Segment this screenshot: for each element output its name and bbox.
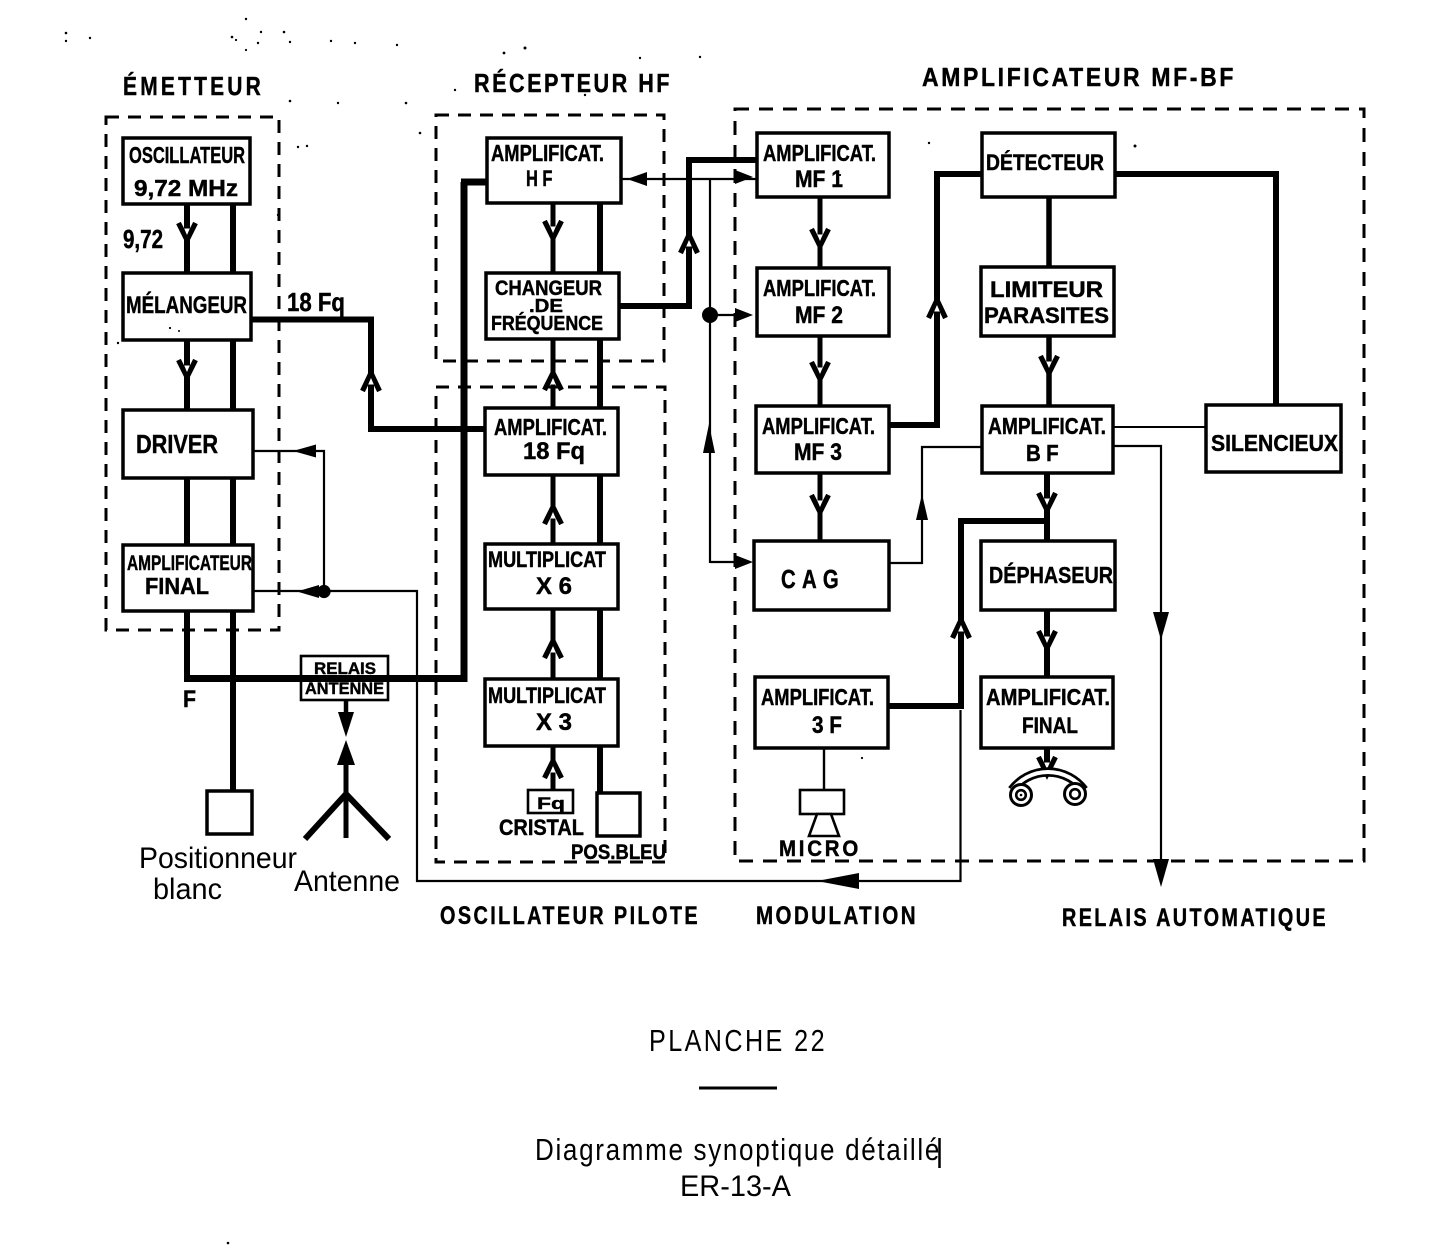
antenna mast	[344, 758, 349, 838]
thin wire BF to silencieux	[1113, 426, 1206, 428]
svg-text:DRIVER: DRIVER	[136, 429, 218, 459]
junction dot on AGC line	[702, 307, 718, 323]
svg-text:18 Fq: 18 Fq	[523, 438, 585, 465]
block AMPLIFICAT. MF3	[756, 406, 889, 473]
wire 18 Fq from amplificat 18Fq to melangeur	[371, 323, 485, 430]
arrow dephaseur to ampli final	[1039, 631, 1056, 648]
arrow into driver	[293, 445, 316, 458]
wire MF3 to detecteur	[889, 422, 937, 428]
wire emitter chain right parallel line down to positionneur	[230, 204, 236, 791]
svg-text:AMPLIFICAT.: AMPLIFICAT.	[494, 414, 607, 440]
arrow ampli final to phones	[1039, 757, 1056, 774]
wire receiver chain right parallel line x600 down to pos bleu	[597, 203, 603, 795]
svg-text:ER-13-A: ER-13-A	[680, 1170, 791, 1203]
arrow down from relais antenne	[338, 712, 354, 737]
arrow up on 3F wire	[953, 620, 970, 638]
svg-text:9,72 MHz: 9,72 MHz	[134, 175, 238, 201]
svg-text:BF: BF	[1026, 440, 1064, 466]
wire detecteur to silencieux	[1115, 174, 1276, 405]
caption underline	[699, 1087, 777, 1090]
headphones right earpiece	[1065, 784, 1086, 805]
svg-text:AMPLIFICATEUR MF-BF: AMPLIFICATEUR MF-BF	[922, 62, 1236, 92]
svg-text:MODULATION: MODULATION	[756, 902, 918, 930]
block MULTIPLICAT X6	[485, 544, 618, 609]
block DRIVER	[123, 410, 253, 478]
arrow up on changeur-MF1 wire	[681, 235, 698, 253]
block CAG	[754, 541, 889, 610]
svg-text:RELAIS: RELAIS	[314, 659, 376, 678]
arrow cristal up to X3	[545, 761, 562, 778]
arrow up on MF3-detecteur wire	[929, 300, 946, 318]
block DETECTEUR	[982, 133, 1115, 197]
svg-text:CRISTAL: CRISTAL	[499, 815, 584, 840]
arrow 18Fq up to changeur	[545, 373, 562, 390]
svg-text:MULTIPLICAT: MULTIPLICAT	[488, 683, 606, 708]
svg-text:AMPLIFICAT.: AMPLIFICAT.	[763, 140, 876, 166]
block AMPLIFICAT. BF	[982, 406, 1113, 473]
svg-text:AMPLIFICAT.: AMPLIFICAT.	[986, 684, 1110, 710]
svg-text:CAG: CAG	[781, 564, 845, 594]
block MULTIPLICAT X3	[485, 679, 618, 746]
svg-text:Fq: Fq	[537, 794, 565, 813]
arrow X3 up to X6	[545, 641, 562, 658]
arrow amplificat HF to changeur	[545, 221, 562, 238]
svg-text:Antenne: Antenne	[294, 865, 400, 898]
block AMPLIFICAT. 18Fq	[485, 408, 618, 475]
svg-text:RELAIS AUTOMATIQUE: RELAIS AUTOMATIQUE	[1062, 904, 1328, 932]
dashed frame AMPLIFICATEUR MF-BF section	[735, 109, 1364, 861]
arrow melangeur to driver	[179, 360, 196, 377]
dashed frame OSCILLATEUR PILOTE section	[436, 387, 665, 862]
dashed frame EMETTEUR section	[106, 117, 279, 630]
wire changeur de frequence to amplificat MF1	[619, 303, 689, 309]
svg-text:DÉPHASEUR: DÉPHASEUR	[989, 561, 1113, 588]
wire F output: ampli final down, along bottom, through relais antenne, up to amplificat HF	[184, 611, 190, 676]
block CHANGEUR DE FREQUENCE	[486, 273, 619, 339]
wire receiver chain arrowed line x553	[551, 203, 556, 790]
wire BF to dephaseur and final to phones x1047	[1044, 473, 1050, 776]
micro body	[800, 790, 844, 814]
svg-text:LIMITEUR: LIMITEUR	[990, 277, 1103, 302]
svg-text:PARASITES: PARASITES	[984, 303, 1109, 328]
scan noise specks	[65, 18, 1137, 1244]
arrow MF2 to MF3	[812, 362, 829, 379]
arrow up on AGC vertical	[703, 424, 715, 453]
arrow mid on relais automatique wire	[1153, 612, 1169, 640]
svg-text:X 6: X 6	[536, 573, 572, 600]
big arrow on modulation wire	[817, 873, 859, 889]
svg-text:MF 2: MF 2	[795, 302, 843, 329]
arrow MF1 to MF2	[812, 229, 829, 246]
block MELANGEUR	[123, 273, 251, 340]
svg-text:Diagramme synoptique détaillé: Diagramme synoptique détaillé	[535, 1132, 941, 1167]
block AMPLIFICAT. MF2	[757, 268, 889, 336]
svg-text:AMPLIFICATEUR: AMPLIFICATEUR	[127, 552, 252, 575]
thin wire BF to relais automatique	[1113, 446, 1161, 880]
wire emitter chain left (oscillateur to ampli final)	[184, 204, 190, 548]
svg-text:18 Fq: 18 Fq	[287, 287, 345, 317]
block AMPLIFICAT. MF1	[757, 133, 889, 197]
thin wire CAG to amplificat BF	[889, 447, 982, 563]
svg-text:FRÉQUENCE: FRÉQUENCE	[491, 312, 603, 335]
svg-text:PLANCHE 22: PLANCHE 22	[649, 1023, 827, 1058]
arrow end on relais automatique wire	[1153, 859, 1169, 887]
svg-text:AMPLIFICAT.: AMPLIFICAT.	[763, 275, 876, 301]
svg-text:MICRO: MICRO	[779, 836, 861, 861]
svg-text:OSCILLATEUR PILOTE: OSCILLATEUR PILOTE	[440, 902, 700, 930]
svg-text:F: F	[183, 686, 196, 713]
stray scan mark after detaille	[938, 1138, 941, 1168]
thin modulation feedback wire from 3F junction to driver and ampli final	[330, 591, 961, 881]
antenna: up arrow	[337, 740, 355, 765]
block AMPLIFICAT. HF	[487, 138, 621, 203]
arrow MF3 to CAG	[812, 495, 829, 512]
arrow into amplificateur final	[297, 585, 319, 598]
wire detecteur-limiteur-BF vertical x1049	[1046, 197, 1052, 406]
svg-text:ÉMETTEUR: ÉMETTEUR	[123, 71, 264, 101]
block Fq cristal	[528, 790, 573, 813]
micro horn	[809, 814, 839, 836]
antenna left leg	[305, 794, 346, 839]
svg-text:FINAL: FINAL	[145, 573, 209, 599]
svg-text:FINAL: FINAL	[1022, 713, 1078, 738]
headphones band	[1012, 772, 1084, 790]
antenna right leg	[346, 794, 389, 839]
svg-text:MF 1: MF 1	[795, 166, 843, 193]
svg-text:AMPLIFICAT.: AMPLIFICAT.	[988, 413, 1106, 439]
wire MF chain vertical x820 MF1-MF2-MF3-CAG	[818, 197, 823, 541]
svg-text:RÉCEPTEUR HF: RÉCEPTEUR HF	[474, 68, 672, 98]
block DEPHASEUR	[981, 541, 1115, 610]
block AMPLIFICAT. FINAL (BF)	[981, 677, 1113, 748]
svg-text:POS.BLEU: POS.BLEU	[571, 841, 666, 864]
arrow into amplificat MF1	[735, 170, 753, 184]
block AMPLIFICATEUR FINAL (emetteur)	[123, 545, 253, 611]
svg-text:MÉLANGEUR: MÉLANGEUR	[126, 291, 247, 319]
arrow X6 up to 18Fq	[545, 507, 562, 524]
thin AGC vertical line x710	[709, 179, 711, 563]
wire relais antenne down to antenna	[344, 700, 349, 716]
svg-text:blanc: blanc	[153, 873, 222, 906]
dashed frame RECEPTEUR HF section	[436, 115, 664, 361]
block OSCILLATEUR 9,72 MHz	[123, 138, 250, 204]
block positionneur square	[207, 791, 252, 834]
svg-text:AMPLIFICAT.: AMPLIFICAT.	[761, 684, 874, 710]
svg-text:3 F: 3 F	[812, 712, 842, 739]
thin AGC spur into CAG	[710, 561, 744, 563]
svg-text:DÉTECTEUR: DÉTECTEUR	[986, 150, 1104, 175]
block LIMITEUR PARASITES	[981, 267, 1114, 336]
arrow into amplificat MF2	[710, 314, 740, 316]
svg-text:MF 3: MF 3	[794, 439, 842, 466]
svg-text:AMPLIFICAT.: AMPLIFICAT.	[491, 140, 604, 166]
thin AGC line between HF and MF1	[621, 178, 757, 180]
arrow up on CAG-BF wire	[916, 494, 928, 520]
block SILENCIEUX	[1206, 405, 1341, 472]
arrow oscillateur to melangeur	[179, 223, 196, 240]
svg-text:MULTIPLICAT: MULTIPLICAT	[488, 547, 606, 572]
arrow into amplificat HF	[627, 172, 647, 186]
junction dot modulation wire	[317, 585, 330, 598]
arrow BF down to junction	[1039, 493, 1056, 510]
svg-text:9,72: 9,72	[123, 224, 163, 254]
svg-text:ANTENNE: ANTENNE	[305, 679, 384, 698]
thin wire 3F to micro	[823, 748, 825, 790]
svg-text:SILENCIEUX: SILENCIEUX	[1211, 430, 1339, 456]
wire amplificat 3F to dephaseur junction	[888, 703, 961, 709]
block RELAIS ANTENNE	[301, 656, 388, 700]
block AMPLIFICAT. 3F	[755, 677, 888, 748]
arrow up on 18Fq wire	[363, 373, 380, 391]
arrow limiteur to BF	[1041, 356, 1058, 373]
svg-text:AMPLIFICAT.: AMPLIFICAT.	[762, 413, 875, 439]
block POS.BLEU square	[597, 793, 640, 836]
svg-text:X 3: X 3	[536, 709, 572, 736]
svg-text:OSCILLATEUR: OSCILLATEUR	[129, 142, 245, 168]
svg-text:HF: HF	[526, 166, 557, 191]
svg-text:Positionneur: Positionneur	[139, 842, 297, 875]
headphones left earpiece	[1011, 785, 1032, 806]
